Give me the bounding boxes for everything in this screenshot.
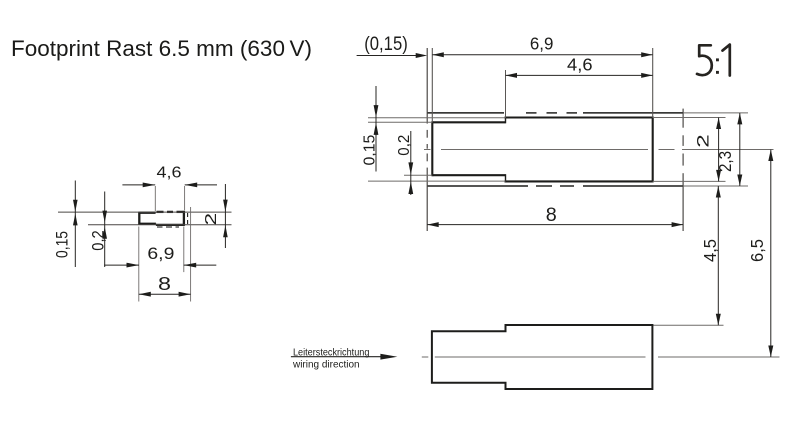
- svg-text:6,9: 6,9: [147, 244, 174, 263]
- svg-text:wiring direction: wiring direction: [292, 359, 360, 371]
- svg-text:8: 8: [546, 205, 557, 226]
- svg-text:4,6: 4,6: [567, 55, 593, 75]
- svg-text:0,2: 0,2: [396, 135, 413, 156]
- svg-text:Leitersteckrichtung: Leitersteckrichtung: [293, 346, 370, 358]
- svg-text:8: 8: [158, 273, 171, 294]
- svg-text:6,9: 6,9: [530, 33, 554, 53]
- svg-text:6,5: 6,5: [747, 239, 767, 262]
- svg-text:4,5: 4,5: [700, 239, 720, 262]
- svg-text:2: 2: [695, 134, 713, 148]
- svg-text:2,3: 2,3: [715, 151, 735, 172]
- svg-text:(0,15): (0,15): [364, 34, 408, 55]
- svg-text:2: 2: [203, 213, 220, 226]
- svg-text:0,15: 0,15: [362, 135, 379, 166]
- svg-text:0,15: 0,15: [52, 231, 71, 258]
- svg-text:0,2: 0,2: [88, 230, 107, 251]
- svg-text:4,6: 4,6: [157, 165, 182, 182]
- svg-text:Footprint Rast 6.5 mm (630 V): Footprint Rast 6.5 mm (630 V): [11, 36, 312, 61]
